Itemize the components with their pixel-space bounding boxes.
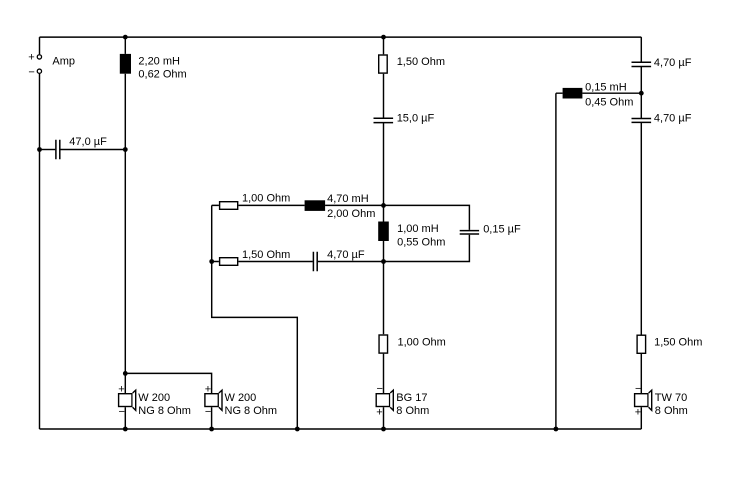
- wire sub loop below cap: [384, 235, 470, 262]
- inductor L3 1,00 mH: [378, 222, 389, 242]
- junction dot cap47 left: [37, 147, 42, 152]
- wire 47uF branch left: [40, 149, 56, 151]
- svg-text:0,55 Ohm: 0,55 Ohm: [397, 236, 445, 248]
- svg-text:−: −: [205, 406, 211, 418]
- wire right branch top: [640, 37, 642, 62]
- wire right between caps: [640, 66, 642, 118]
- junction dot top L1: [123, 35, 128, 40]
- wire mid below cap15: [383, 123, 385, 222]
- terminal - circle: [37, 69, 41, 73]
- junction dot bottom spk2: [209, 427, 214, 432]
- wire upper mid branch: [212, 204, 384, 206]
- wire left riser to + terminal: [39, 37, 41, 54]
- inductor L2 4,70 mH: [305, 200, 326, 211]
- wire below speaker TW70: [640, 407, 642, 429]
- svg-text:4,70 µF: 4,70 µF: [327, 249, 365, 261]
- capacitor C3 0,15 uF: [460, 231, 479, 234]
- svg-text:−: −: [28, 67, 34, 79]
- wire 47uF branch right: [60, 149, 125, 151]
- svg-text:+: +: [28, 51, 34, 63]
- capacitor C6 4,70 uF (right second): [632, 119, 652, 123]
- svg-text:+: +: [635, 406, 641, 418]
- wire mid below R3 to speaker: [383, 354, 385, 393]
- wire branch L1 top: [124, 37, 126, 54]
- svg-text:0,15 µF: 0,15 µF: [483, 224, 521, 236]
- resistor R5 1,50 Ohm (lower mid branch): [220, 258, 238, 266]
- svg-text:8 Ohm: 8 Ohm: [655, 405, 688, 417]
- wire tweeter inductor branch: [556, 92, 641, 94]
- svg-text:4,70 mH: 4,70 mH: [327, 193, 369, 205]
- junction dot speaker2 feed: [123, 371, 128, 376]
- wire below speaker W200 #2: [211, 407, 213, 429]
- wire bottom rail: [40, 428, 642, 430]
- svg-text:2,20 mH: 2,20 mH: [138, 56, 180, 68]
- svg-text:BG 17: BG 17: [396, 392, 427, 404]
- svg-text:TW 70: TW 70: [655, 392, 687, 404]
- svg-text:1,50 Ohm: 1,50 Ohm: [397, 56, 445, 68]
- speaker BG17: [376, 390, 393, 410]
- capacitor C5 4,70 uF (right top): [632, 62, 652, 66]
- wire below speaker W200 #1: [124, 407, 126, 429]
- svg-text:1,50 Ohm: 1,50 Ohm: [242, 249, 290, 261]
- terminal + circle: [37, 55, 41, 59]
- wire lower mid branch: [212, 261, 384, 263]
- capacitor C4 4,70 uF (lower mid branch): [313, 252, 317, 272]
- junction dot bottom mid: [381, 427, 386, 432]
- svg-text:4,70 µF: 4,70 µF: [654, 113, 692, 125]
- svg-text:Amp: Amp: [52, 56, 75, 68]
- junction dot bottom L1: [123, 427, 128, 432]
- junction dot tweeter branch: [639, 91, 644, 96]
- wire tweeter shunt vertical: [555, 93, 557, 429]
- wire feed to speaker W200 #2: [125, 373, 211, 393]
- svg-text:4,70 µF: 4,70 µF: [654, 57, 692, 69]
- svg-text:0,45 Ohm: 0,45 Ohm: [585, 97, 633, 109]
- svg-text:15,0 µF: 15,0 µF: [397, 113, 435, 125]
- wire upper branch to sub loop: [384, 205, 470, 230]
- speaker W200 #1: [119, 390, 136, 410]
- wire mid-left vertical with jog: [212, 205, 298, 429]
- svg-text:+: +: [376, 406, 382, 418]
- svg-text:1,50 Ohm: 1,50 Ohm: [654, 337, 702, 349]
- svg-text:+: +: [205, 384, 211, 396]
- svg-text:0,62 Ohm: 0,62 Ohm: [138, 69, 186, 81]
- wire right below cap2: [640, 122, 642, 334]
- svg-text:47,0 µF: 47,0 µF: [69, 136, 107, 148]
- wire mid between R and cap15: [383, 74, 385, 119]
- resistor R3 1,00 Ohm (mid bottom): [379, 335, 388, 353]
- inductor L4 0,15 mH: [563, 88, 583, 99]
- svg-text:2,00 Ohm: 2,00 Ohm: [327, 208, 375, 220]
- svg-text:0,15 mH: 0,15 mH: [585, 82, 627, 94]
- svg-text:NG 8 Ohm: NG 8 Ohm: [138, 405, 191, 417]
- resistor R1 1,50 Ohm (mid top): [379, 55, 388, 73]
- wire below speaker BG17: [383, 407, 385, 429]
- junction dot cap47 right: [123, 147, 128, 152]
- speaker W200 #2: [205, 390, 222, 410]
- capacitor C1 47,0 uF: [56, 140, 60, 160]
- wire branch L1 to cap tap and speaker: [124, 74, 126, 393]
- wire left rail below - terminal: [39, 74, 41, 430]
- svg-text:W 200: W 200: [225, 392, 257, 404]
- svg-text:W 200: W 200: [138, 392, 170, 404]
- wire top rail: [40, 36, 642, 38]
- svg-text:−: −: [119, 406, 125, 418]
- inductor L1 2,20 mH: [120, 54, 131, 74]
- svg-text:−: −: [377, 383, 383, 395]
- wire right below R4 to speaker: [640, 354, 642, 393]
- junction dot top mid: [381, 35, 386, 40]
- resistor R4 1,50 Ohm (right): [637, 335, 646, 353]
- resistor R2 1,00 Ohm (upper mid branch): [220, 202, 238, 210]
- wire mid branch top: [383, 37, 385, 54]
- wire mid below L3: [383, 241, 385, 334]
- junction dot bottom jog: [295, 427, 300, 432]
- junction dot bottom tweeter shunt: [554, 427, 559, 432]
- junction dot mid upper: [381, 203, 386, 208]
- speaker TW70: [635, 390, 652, 410]
- svg-text:+: +: [118, 384, 124, 396]
- junction dot mid-left lower: [209, 259, 214, 264]
- junction dot mid lower: [381, 259, 386, 264]
- svg-text:−: −: [635, 383, 641, 395]
- svg-text:1,00 Ohm: 1,00 Ohm: [242, 192, 290, 204]
- svg-text:1,00 Ohm: 1,00 Ohm: [398, 337, 446, 349]
- svg-text:8 Ohm: 8 Ohm: [396, 405, 429, 417]
- svg-text:1,00 mH: 1,00 mH: [397, 223, 439, 235]
- capacitor C2 15,0 uF: [374, 118, 394, 122]
- svg-text:NG 8 Ohm: NG 8 Ohm: [225, 405, 278, 417]
